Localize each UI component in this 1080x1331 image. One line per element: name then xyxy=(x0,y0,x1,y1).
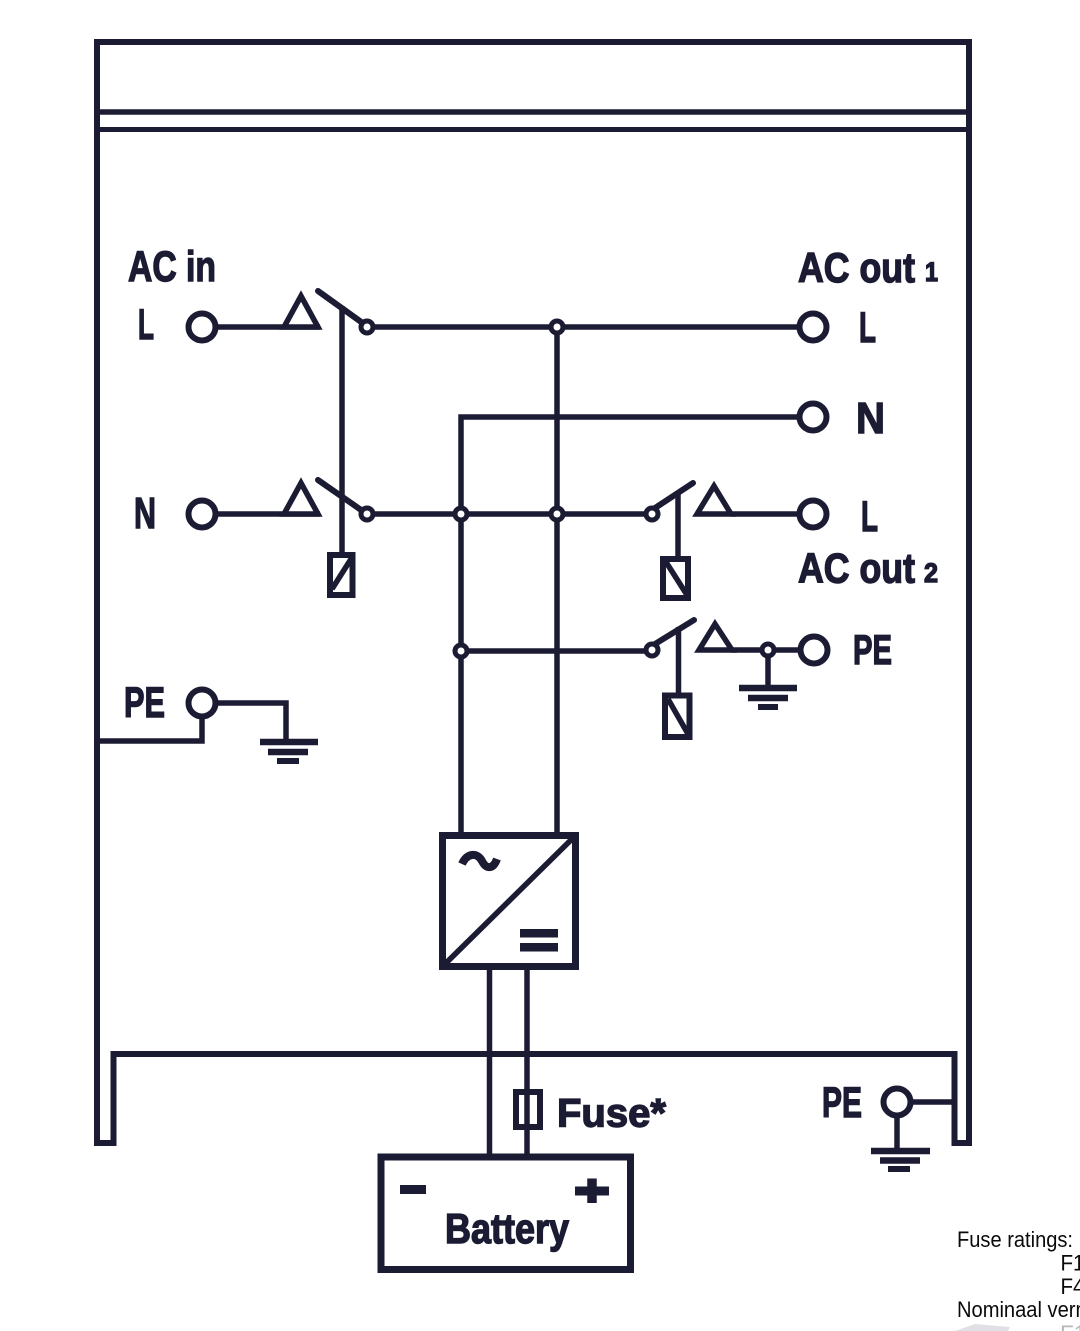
wire AC out2 L triangle to terminal xyxy=(731,511,801,517)
terminal AC in PE xyxy=(189,690,216,717)
relay coil K1 xyxy=(330,555,353,595)
svg-text:AC in: AC in xyxy=(128,243,216,291)
wire inverter DC output right through fuse to battery xyxy=(524,967,530,1154)
svg-text:PE: PE xyxy=(822,1079,862,1127)
triangle marker T2 (AC in N) xyxy=(284,483,318,514)
enclosure left border and left foot xyxy=(97,39,114,1143)
svg-text:1: 1 xyxy=(925,257,938,287)
svg-text:F1: F1 xyxy=(1060,1321,1080,1331)
wire PE bus to AC out2 PE switch xyxy=(461,648,645,654)
wire AC in N to triangle xyxy=(218,511,320,517)
wire vertical node L bus to inverter AC input right xyxy=(554,327,560,836)
junction node N bus right xyxy=(551,508,563,520)
svg-text:F1: F1 xyxy=(1061,1251,1080,1276)
svg-text:AC out: AC out xyxy=(798,244,915,291)
wire left border to AC in PE terminal bottom xyxy=(100,717,202,741)
wire inverter DC output left to battery xyxy=(487,967,493,1154)
contact of switch S4 xyxy=(646,644,658,656)
relay coil K2 xyxy=(663,559,688,598)
inverter U1 xyxy=(443,836,576,967)
enclosure inner horizontal line 2 xyxy=(94,127,972,132)
terminal AC out1 L xyxy=(800,314,827,341)
contact of switch S2 xyxy=(361,508,373,520)
triangle marker T3 (AC out2 L) xyxy=(697,486,731,514)
enclosure top border xyxy=(94,39,972,45)
svg-text:Fuse*: Fuse* xyxy=(557,1092,666,1136)
junction node L bus xyxy=(551,321,563,333)
terminal AC out2 L xyxy=(800,501,827,528)
switch S3 blade (AC out2 L) xyxy=(655,483,693,508)
wire AC out1 N terminal to inverter AC input left xyxy=(461,417,800,836)
svg-text:L: L xyxy=(138,301,154,349)
terminal chassis PE bottom xyxy=(884,1089,911,1116)
terminal AC in L xyxy=(189,314,216,341)
terminal AC in N xyxy=(189,501,216,528)
ground symbol (AC out2 PE) xyxy=(739,656,797,707)
svg-text:Battery: Battery xyxy=(445,1205,570,1252)
triangle marker T1 (AC in L) xyxy=(284,296,318,327)
relay coil K3 xyxy=(665,696,690,738)
svg-text:L: L xyxy=(859,304,876,352)
svg-text:Nominaal vermogen: Nominaal vermogen xyxy=(957,1297,1080,1322)
svg-text:N: N xyxy=(134,489,156,538)
triangle marker T4 (AC out2 PE) xyxy=(699,624,732,650)
junction node PE bus xyxy=(455,645,467,657)
terminal AC out2 PE xyxy=(801,637,828,664)
wire chassis PE terminal to right inner rail xyxy=(913,1099,955,1105)
wire L switch contact to AC out1 L terminal xyxy=(375,324,800,330)
junction node N bus left xyxy=(455,508,467,520)
faint artifact bottom edge xyxy=(955,1324,1010,1331)
svg-text:PE: PE xyxy=(853,626,892,673)
switch S4 blade (AC out2 PE) xyxy=(655,620,694,644)
contact of switch S1 xyxy=(361,321,373,333)
battery B1 xyxy=(381,1157,631,1270)
svg-text:AC out: AC out xyxy=(798,545,915,592)
svg-text:N: N xyxy=(856,394,885,443)
enclosure right border and right foot xyxy=(955,39,970,1143)
svg-text:PE: PE xyxy=(124,679,165,727)
switch S2 blade (AC in N) xyxy=(318,480,364,512)
wire AC in PE terminal to ground branch xyxy=(218,703,286,740)
ground symbol (AC in PE) xyxy=(260,742,318,761)
switch S1 linkage xyxy=(339,306,345,552)
svg-text:Fuse ratings:: Fuse ratings: xyxy=(957,1227,1073,1252)
junction node PE ground tap xyxy=(762,644,774,656)
svg-text:F4: F4 xyxy=(1061,1274,1080,1299)
wire AC in L to triangle xyxy=(218,324,320,330)
fuse F (battery fuse) xyxy=(516,1092,540,1127)
enclosure bottom shelf line xyxy=(111,1051,958,1057)
switch S3 linkage xyxy=(675,491,681,558)
svg-text:2: 2 xyxy=(924,558,938,588)
contact of switch S3 xyxy=(646,508,658,520)
wire N switch contact to AC out2 L switch xyxy=(375,511,645,517)
switch S4 linkage xyxy=(676,627,682,697)
enclosure inner horizontal line 1 xyxy=(94,109,972,115)
wire AC out2 PE triangle to terminal xyxy=(731,647,801,653)
ground symbol (chassis PE bottom) xyxy=(871,1115,930,1169)
svg-text:L: L xyxy=(861,493,878,541)
switch S1 blade (AC in L) xyxy=(318,291,364,324)
terminal AC out1 N xyxy=(800,404,827,431)
